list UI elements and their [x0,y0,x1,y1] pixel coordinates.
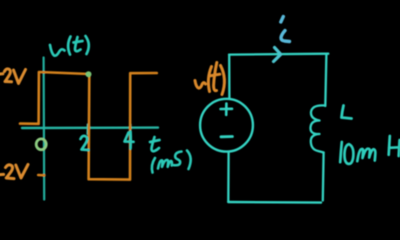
graph x-axis [22,126,158,129]
circuit bottom wire [228,201,321,204]
label 2 (t axis) [81,136,89,150]
label L [342,106,352,119]
label +2V [0,69,26,84]
current label i [281,17,290,42]
origin label 0 (green) [36,139,46,150]
sample dot (green) [86,71,92,77]
-2V tick on y-axis [38,174,44,177]
label -2V [0,165,28,179]
circuit left wire upper [228,55,230,99]
label (ms) [152,151,191,173]
circuit top wire [229,53,328,56]
graph y-axis [42,58,45,200]
label 10mH [340,136,399,164]
circuit left wire lower [227,152,230,202]
label t (t axis) [150,137,160,151]
square wave v(t) [20,72,157,180]
current arrow [274,48,281,62]
voltage source circle [200,99,253,152]
label 4 (t axis) [125,132,134,149]
label v(t) teal (graph) [50,36,89,56]
minus sign [221,135,232,138]
tick t=4 [129,125,131,135]
circuit right wire upper [325,54,326,106]
label v(t) orange (source) [195,63,224,95]
circuit right wire lower [322,153,325,201]
tick t=2 [86,125,88,135]
inductor coils [310,105,325,152]
plus sign [221,104,232,115]
